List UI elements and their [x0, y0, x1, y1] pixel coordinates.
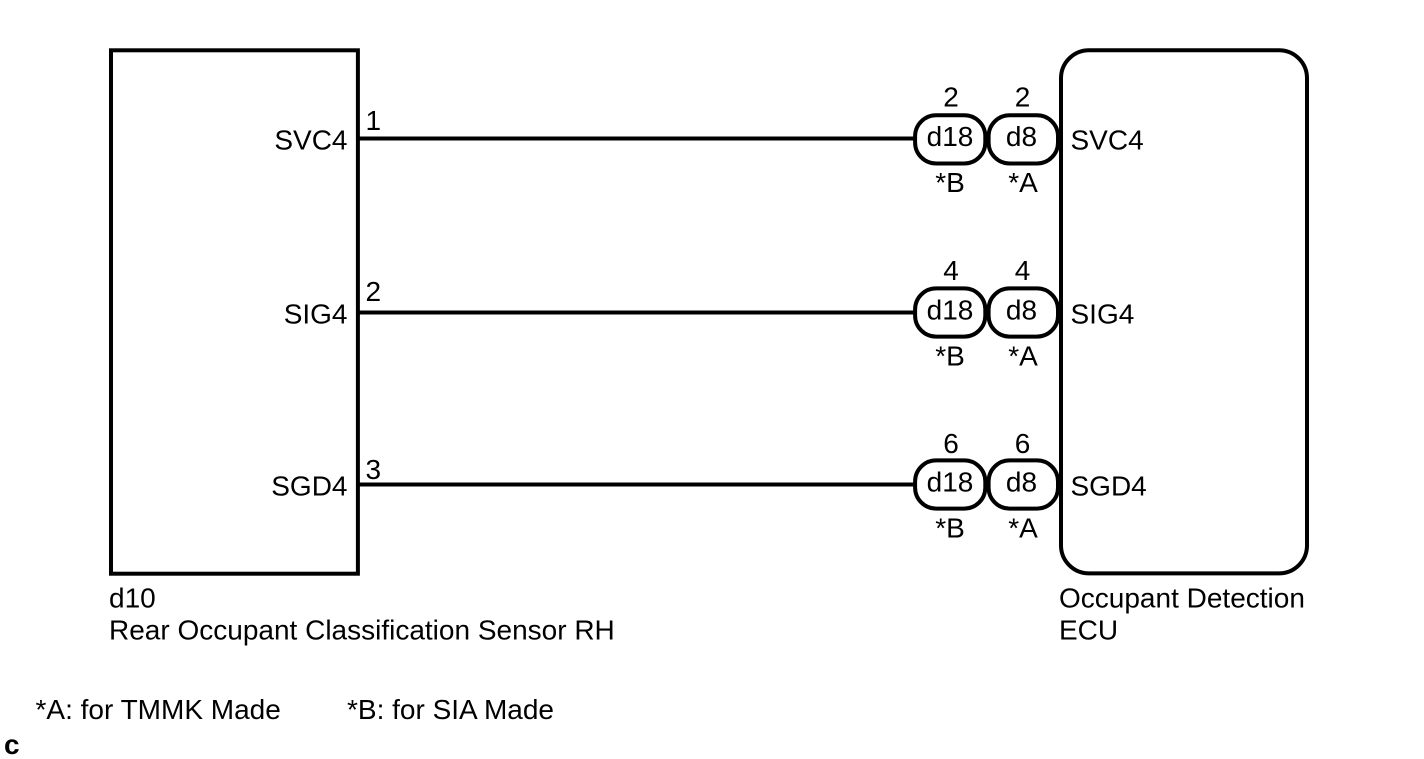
svg-text:*B: *B [935, 167, 965, 198]
svg-text:2: 2 [366, 276, 382, 307]
svg-text:d18: d18 [927, 295, 974, 326]
svg-text:2: 2 [943, 81, 959, 112]
svg-text:*A: *A [1008, 341, 1038, 372]
connector d18 pin 2 oval [915, 115, 985, 163]
wire SIG4: d10 pin 2 to connector d18/d8 pin 4 [357, 311, 916, 315]
svg-text:d8: d8 [1006, 467, 1037, 498]
svg-text:d8: d8 [1006, 121, 1037, 152]
svg-text:*B: *B [935, 341, 965, 372]
svg-text:*A: for TMMK Made: *A: for TMMK Made [36, 694, 281, 725]
svg-text:6: 6 [943, 428, 959, 459]
connector d18 pin 4 oval [915, 288, 985, 336]
svg-text:*B: *B [935, 513, 965, 544]
svg-text:Occupant Detection: Occupant Detection [1059, 583, 1305, 614]
wire SGD4: d10 pin 3 to connector d18/d8 pin 6 [357, 483, 916, 487]
svg-text:4: 4 [1015, 255, 1031, 286]
svg-text:1: 1 [366, 105, 382, 136]
wire SVC4: d10 pin 1 to connector d18/d8 pin 2 [357, 137, 916, 141]
svg-text:d10: d10 [109, 583, 156, 614]
svg-text:6: 6 [1015, 428, 1031, 459]
svg-text:SVC4: SVC4 [1071, 124, 1144, 155]
component d10: Rear Occupant Classification Sensor RH box [111, 50, 358, 573]
connector d18 pin 6 oval [915, 460, 985, 508]
svg-text:c: c [4, 729, 20, 759]
svg-text:SIG4: SIG4 [1071, 298, 1135, 329]
connector d8 pin 2 oval [989, 115, 1058, 163]
svg-text:SIG4: SIG4 [284, 298, 348, 329]
svg-text:ECU: ECU [1059, 615, 1118, 646]
svg-text:d8: d8 [1006, 295, 1037, 326]
svg-text:Rear Occupant Classification S: Rear Occupant Classification Sensor RH [109, 615, 615, 646]
connector d8 pin 4 oval [989, 288, 1058, 336]
svg-text:d18: d18 [927, 121, 974, 152]
svg-text:SGD4: SGD4 [1071, 470, 1147, 501]
connector d8 pin 6 oval [989, 460, 1058, 508]
svg-text:SVC4: SVC4 [274, 124, 347, 155]
svg-text:3: 3 [366, 454, 382, 485]
svg-text:*B: for SIA Made: *B: for SIA Made [347, 694, 554, 725]
svg-text:4: 4 [943, 255, 959, 286]
svg-text:SGD4: SGD4 [271, 470, 347, 501]
svg-text:*A: *A [1008, 167, 1038, 198]
svg-text:2: 2 [1015, 81, 1031, 112]
component Occupant Detection ECU box [1061, 50, 1307, 573]
svg-text:*A: *A [1008, 513, 1038, 544]
svg-text:d18: d18 [927, 467, 974, 498]
